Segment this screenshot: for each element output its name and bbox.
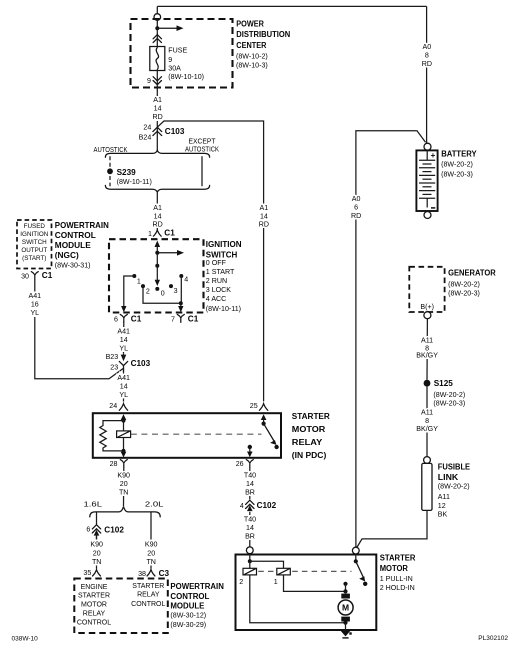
svg-text:35: 35 [83, 569, 91, 577]
starter motor box [236, 555, 377, 631]
pin 38 C3 PCM [147, 570, 155, 576]
wire A0 8 RD vertical to battery [426, 6, 428, 143]
pin 26 relay [246, 460, 253, 468]
starter switch contact to motor [343, 582, 347, 586]
wire below merge [156, 193, 158, 230]
splice S239 [107, 168, 113, 174]
wire label A41 14 YL [116, 327, 132, 352]
svg-text:C103: C103 [131, 359, 151, 368]
svg-text:14: 14 [154, 212, 162, 220]
wire battery feed branch A0 6 RD [356, 131, 426, 548]
svg-text:C102: C102 [257, 501, 277, 510]
svg-text:TN: TN [92, 558, 101, 566]
hold-in winding 1 [277, 568, 291, 575]
position 0 contact [155, 287, 159, 291]
svg-text:(8W-10-11): (8W-10-11) [206, 305, 241, 313]
PCM dashed box bottom [74, 579, 168, 634]
starter B+ terminal [352, 547, 359, 554]
svg-text:CENTER: CENTER [236, 41, 266, 50]
wire ignition pin6 down [123, 322, 125, 353]
svg-text:2: 2 [146, 287, 150, 295]
svg-text:CONTROL: CONTROL [77, 619, 111, 626]
svg-text:8: 8 [425, 52, 429, 60]
svg-text:3 LOCK: 3 LOCK [206, 286, 232, 294]
svg-text:EXCEPT: EXCEPT [189, 138, 217, 146]
svg-text:6: 6 [114, 316, 118, 324]
relay resistor [100, 421, 124, 451]
relay output contact [248, 445, 252, 449]
svg-text:A1: A1 [153, 204, 162, 212]
wire S125 to fusible link [426, 387, 428, 457]
svg-text:B(+): B(+) [420, 303, 434, 311]
S239 split brace top [105, 150, 209, 157]
svg-text:K90: K90 [90, 540, 103, 548]
svg-text:LINK: LINK [438, 473, 459, 482]
starter solenoid feed [249, 554, 251, 562]
svg-text:0 OFF: 0 OFF [206, 259, 227, 267]
svg-text:RD: RD [351, 212, 361, 220]
svg-text:T40: T40 [244, 516, 256, 524]
wire T40 below pin 26 [249, 468, 251, 547]
wire C103 to relay pin 24 [123, 368, 125, 401]
svg-text:4: 4 [240, 502, 244, 510]
S239 merge brace bottom [105, 185, 209, 192]
svg-text:AUTOSTICK: AUTOSTICK [185, 145, 219, 153]
svg-text:AUTOSTICK: AUTOSTICK [94, 146, 128, 154]
svg-text:1: 1 [137, 277, 141, 285]
svg-text:FUSED: FUSED [24, 223, 46, 230]
fuse terminal chevrons (bottom) [156, 71, 158, 97]
svg-text:8: 8 [425, 417, 429, 425]
svg-text:K90: K90 [145, 540, 158, 548]
svg-text:OUTPUT: OUTPUT [21, 247, 47, 254]
fuse 9 terminal chevrons (top) [156, 28, 158, 46]
wire position2 to pin 7 [143, 286, 181, 303]
svg-text:9: 9 [168, 56, 172, 64]
svg-text:C103: C103 [165, 127, 185, 136]
svg-text:SWITCH: SWITCH [206, 250, 238, 259]
svg-text:14: 14 [120, 383, 128, 391]
engine split brace [90, 506, 160, 517]
svg-text:STARTER: STARTER [78, 592, 110, 599]
motor M [345, 591, 347, 593]
wire position1 to pin 6 [124, 276, 135, 308]
svg-text:RD: RD [152, 221, 162, 229]
2.0L branch wire [150, 513, 152, 569]
relay switch pivot [262, 422, 266, 426]
svg-text:CONTROL: CONTROL [131, 601, 165, 608]
svg-text:DISTRIBUTION: DISTRIBUTION [236, 30, 290, 39]
svg-text:TN: TN [119, 489, 128, 497]
position 4 contact [179, 274, 183, 278]
battery plates [426, 150, 428, 160]
svg-text:C1: C1 [131, 315, 142, 324]
fusible link terminal [424, 457, 431, 464]
arrow to other circuits [157, 27, 177, 29]
junction dot ignition feed [155, 251, 159, 255]
svg-text:ENGINE: ENGINE [81, 584, 108, 591]
svg-text:RD: RD [422, 60, 432, 68]
svg-text:BK/GY: BK/GY [416, 425, 438, 433]
ignition switch dashed box [109, 239, 204, 312]
battery minus [431, 207, 435, 209]
svg-text:B24: B24 [139, 134, 152, 142]
svg-text:MOTOR: MOTOR [81, 601, 107, 608]
fuse 9 30A body [150, 47, 165, 71]
ground [345, 623, 347, 631]
svg-text:(8W-20-2): (8W-20-2) [448, 280, 480, 288]
svg-text:A11: A11 [438, 493, 450, 501]
svg-text:1.6L: 1.6L [84, 500, 103, 509]
svg-text:STARTER: STARTER [132, 583, 164, 590]
svg-text:A1: A1 [153, 96, 162, 104]
svg-text:MODULE: MODULE [170, 602, 205, 611]
connector C103 24/B24 [153, 127, 162, 135]
svg-text:12: 12 [438, 502, 446, 510]
power distribution center dashed box [131, 19, 233, 88]
svg-text:1: 1 [274, 578, 278, 586]
svg-text:B23: B23 [106, 353, 119, 361]
svg-text:A41: A41 [117, 374, 130, 382]
svg-text:14: 14 [246, 524, 254, 532]
svg-text:(8W-10-3): (8W-10-3) [236, 62, 268, 70]
svg-text:6: 6 [86, 525, 90, 533]
svg-text:BR: BR [245, 533, 255, 541]
svg-text:6: 6 [354, 204, 358, 212]
svg-text:(8W-30-31): (8W-30-31) [55, 261, 91, 269]
svg-text:28: 28 [110, 460, 118, 468]
svg-text:C1: C1 [188, 315, 199, 324]
svg-text:(8W-20-3): (8W-20-3) [441, 170, 473, 178]
svg-text:25: 25 [250, 402, 258, 410]
svg-text:MODULE: MODULE [55, 240, 91, 250]
svg-text:7: 7 [171, 316, 175, 324]
svg-text:(8W-10-10): (8W-10-10) [168, 73, 204, 81]
svg-text:4 ACC: 4 ACC [206, 295, 227, 303]
svg-text:14: 14 [260, 212, 268, 220]
svg-text:1 PULL-IN: 1 PULL-IN [380, 575, 413, 583]
svg-text:(8W-30-12): (8W-30-12) [170, 612, 206, 620]
svg-text:20: 20 [93, 549, 101, 557]
svg-text:BR: BR [245, 489, 255, 497]
svg-text:(8W-20-3): (8W-20-3) [433, 400, 465, 408]
position 3 contact [169, 284, 173, 288]
svg-text:(8W-20-3): (8W-20-3) [448, 290, 480, 298]
svg-text:A41: A41 [117, 327, 130, 335]
svg-text:S239: S239 [117, 168, 137, 177]
svg-text:38: 38 [138, 570, 146, 578]
svg-text:(8W-30-29): (8W-30-29) [170, 621, 206, 629]
svg-text:MOTOR: MOTOR [292, 425, 326, 434]
relay coil feed arrow pin24 [121, 414, 127, 420]
dashed autostick branch wire [109, 156, 111, 186]
svg-text:(NGC): (NGC) [55, 250, 79, 260]
1.6L branch wire [96, 513, 98, 525]
svg-text:2 HOLD-IN: 2 HOLD-IN [380, 584, 415, 592]
svg-text:24: 24 [143, 124, 151, 132]
svg-text:YL: YL [119, 344, 128, 352]
svg-text:CONTROL: CONTROL [55, 230, 96, 240]
svg-text:(START): (START) [22, 255, 46, 262]
connector C103 B23/23 [121, 355, 127, 362]
wire position4 to pin 7 [180, 276, 182, 303]
pin 24 relay [119, 404, 127, 411]
wire node to junction [156, 20, 158, 28]
winding 1 return wire [284, 575, 346, 592]
generator dashed box [409, 267, 444, 312]
svg-text:23: 23 [110, 363, 118, 371]
svg-text:1 START: 1 START [206, 268, 235, 276]
svg-text:30: 30 [21, 272, 29, 280]
arrow to other ignition circuits [157, 252, 178, 254]
ignition switch feed arrow [155, 241, 161, 247]
svg-text:20: 20 [147, 549, 155, 557]
wire top horizontal from node to battery feed [157, 5, 426, 7]
pin 35 PCM [93, 570, 101, 576]
svg-text:RD: RD [259, 221, 269, 229]
svg-text:14: 14 [120, 336, 128, 344]
svg-text:(IN PDC): (IN PDC) [292, 451, 327, 460]
wire label A1 14 RD right branch [257, 204, 272, 228]
relay switch blade [264, 424, 275, 442]
svg-text:STARTER: STARTER [380, 554, 416, 563]
relay coil [123, 421, 125, 431]
PCM NGC dashed box [17, 220, 52, 269]
pull-in winding 2 [249, 561, 251, 568]
svg-text:A11: A11 [421, 337, 433, 345]
wire generator to S125 [426, 319, 428, 380]
svg-text:POWER: POWER [236, 20, 264, 29]
node circle at PDC feed [156, 6, 158, 13]
position 2 contact [141, 284, 145, 288]
svg-text:14: 14 [246, 480, 254, 488]
svg-text:(8W-10-11): (8W-10-11) [117, 178, 152, 186]
svg-text:20: 20 [120, 480, 128, 488]
svg-text:FUSE: FUSE [168, 47, 187, 55]
battery box [416, 150, 437, 211]
svg-text:2 RUN: 2 RUN [206, 277, 227, 285]
svg-text:26: 26 [236, 460, 244, 468]
svg-text:2.0L: 2.0L [145, 500, 164, 509]
svg-text:IGNITION: IGNITION [206, 240, 242, 249]
winding 2 return wire [250, 575, 346, 623]
svg-text:24: 24 [109, 402, 117, 410]
svg-text:T40: T40 [244, 472, 256, 480]
relay coil out arrow pin28 [123, 451, 125, 454]
svg-text:POWERTRAIN: POWERTRAIN [55, 220, 109, 230]
relay switch feed arrow pin25 [261, 414, 267, 420]
battery top terminal [424, 143, 431, 150]
svg-text:+: + [431, 151, 436, 160]
starter solenoid terminal [246, 547, 253, 554]
pin 7 C1 [177, 314, 184, 322]
svg-text:BK/GY: BK/GY [416, 352, 438, 360]
svg-text:K90: K90 [117, 472, 130, 480]
wire label A1 14 RD [151, 204, 166, 228]
svg-text:STARTER: STARTER [292, 412, 330, 421]
svg-text:9: 9 [147, 77, 151, 85]
svg-text:0: 0 [161, 289, 165, 297]
starter motor relay box [93, 413, 281, 458]
svg-text:1: 1 [148, 230, 152, 238]
svg-text:IGNITION: IGNITION [20, 231, 48, 238]
svg-text:A0: A0 [423, 43, 432, 51]
svg-text:BATTERY: BATTERY [441, 150, 477, 159]
svg-text:S125: S125 [434, 379, 454, 388]
svg-text:MOTOR: MOTOR [380, 564, 408, 573]
svg-text:SWITCH: SWITCH [22, 239, 47, 246]
svg-text:RELAY: RELAY [292, 438, 323, 447]
wire A41 16 YL from PCM pin 30 [35, 280, 124, 379]
svg-text:A0: A0 [352, 195, 361, 203]
svg-text:2: 2 [239, 578, 243, 586]
svg-text:M: M [342, 603, 349, 613]
svg-text:4: 4 [184, 276, 188, 284]
svg-text:YL: YL [119, 391, 128, 399]
svg-text:038W-10: 038W-10 [12, 636, 39, 643]
svg-text:(8W-20-2): (8W-20-2) [438, 483, 470, 491]
wire label A0 8 RD [420, 43, 434, 67]
svg-text:A41: A41 [28, 292, 41, 300]
svg-text:3: 3 [174, 287, 178, 295]
connector C102 pin 4 [243, 499, 257, 511]
pin 28 relay [120, 460, 127, 468]
svg-text:RELAY: RELAY [137, 592, 160, 599]
svg-text:16: 16 [31, 300, 39, 308]
svg-text:GENERATOR: GENERATOR [448, 269, 496, 278]
svg-text:TN: TN [146, 558, 155, 566]
wire T40 to starter [243, 515, 259, 540]
svg-text:(8W-10-2): (8W-10-2) [236, 53, 268, 61]
svg-text:(8W-20-2): (8W-20-2) [441, 161, 473, 169]
pin 25 relay [259, 404, 267, 411]
pin 6 C1 [120, 314, 127, 322]
svg-text:C1: C1 [164, 229, 175, 238]
svg-text:PL302102: PL302102 [478, 635, 508, 642]
position 1 contact [132, 274, 136, 278]
svg-text:RELAY: RELAY [83, 610, 106, 617]
svg-text:(8W-20-2): (8W-20-2) [433, 391, 465, 399]
pin 1 C1 ignition switch [153, 230, 161, 236]
svg-text:RD: RD [152, 113, 162, 121]
solid except-autostick branch wire [201, 156, 203, 186]
battery bottom terminal [424, 212, 431, 219]
svg-text:14: 14 [154, 104, 162, 112]
relay linkage dashed [131, 433, 262, 435]
svg-text:YL: YL [30, 309, 39, 317]
junction dot in PDC [155, 26, 159, 30]
svg-text:30A: 30A [168, 65, 181, 73]
svg-text:A1: A1 [260, 204, 269, 212]
wire fusible link to starter [357, 510, 428, 548]
wire branch to relay pin 25 [157, 121, 263, 401]
svg-text:C102: C102 [104, 525, 124, 534]
pin 30 C1 [31, 272, 38, 280]
svg-text:BK: BK [438, 511, 448, 519]
solenoid linkage dashed [258, 570, 275, 572]
wire to C103 [156, 121, 158, 151]
wire K90 below pin 28 [123, 468, 125, 506]
svg-text:CONTROL: CONTROL [170, 592, 209, 601]
ignition switch wiper [155, 264, 159, 268]
fusible link body [422, 463, 432, 510]
svg-text:C3: C3 [159, 569, 170, 578]
splice S125 [424, 380, 431, 387]
svg-text:A11: A11 [421, 409, 433, 417]
connector C102 pin 6 [92, 525, 100, 533]
wire K90 1.6L [96, 536, 98, 569]
starter switch [355, 554, 357, 561]
svg-text:POWERTRAIN: POWERTRAIN [170, 582, 224, 591]
svg-text:C1: C1 [42, 271, 53, 280]
svg-text:FUSIBLE: FUSIBLE [438, 462, 471, 471]
